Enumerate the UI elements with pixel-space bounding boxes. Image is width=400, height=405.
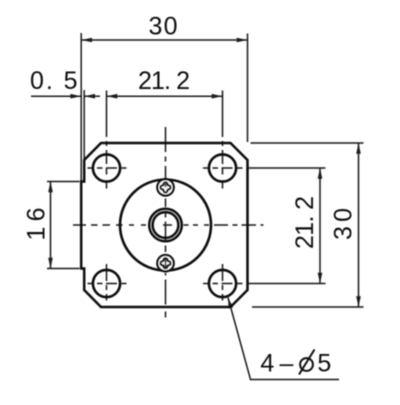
arrowhead 0.5 pointing right bbox=[70, 94, 81, 99]
node: centerline vertical hole bottom-left bbox=[106, 264, 108, 301]
wire: extension line top edge right bbox=[251, 142, 364, 144]
arrowhead 30 top right bbox=[237, 38, 248, 43]
arrowhead 30 top left bbox=[81, 38, 92, 43]
svg-text:4: 4 bbox=[260, 350, 274, 378]
node: centerline horizontal hole bottom-right extended bbox=[203, 283, 326, 285]
svg-text:–: – bbox=[280, 350, 294, 378]
arrowhead 21.2 top right bbox=[212, 94, 223, 99]
screw center tick bottom bbox=[165, 259, 167, 269]
svg-text:0. 5: 0. 5 bbox=[30, 67, 78, 95]
plate outline with chamfered corners and 0.5 tab on left bbox=[81, 143, 247, 307]
hole bottom-right bbox=[209, 270, 236, 297]
wire: dimension line 30 right bbox=[358, 143, 360, 307]
arrowhead 0.5 pointing left bbox=[84, 94, 95, 99]
node: centerline horizontal hole top-right extended bbox=[203, 167, 326, 169]
arrowhead 16 bottom bbox=[48, 258, 53, 269]
hole top-left bbox=[93, 154, 120, 181]
arrowhead 21.2 top left bbox=[107, 94, 118, 99]
wire: leader line 4-phi5 bbox=[228, 298, 339, 380]
svg-text:21. 2: 21. 2 bbox=[291, 196, 319, 249]
arrowhead 16 top bbox=[48, 182, 53, 193]
node: centerline vertical hole top-left bbox=[106, 91, 108, 189]
wire: extension line right (30 top dim) bbox=[247, 34, 249, 143]
screw center tick top bbox=[165, 184, 167, 187]
boss circle (large center circle) bbox=[120, 180, 211, 271]
node: centerline vertical main bbox=[165, 127, 167, 318]
node: centerline horizontal main bbox=[73, 224, 264, 226]
node: centerline horizontal hole top-left bbox=[88, 167, 127, 169]
hole bottom-left bbox=[93, 270, 120, 297]
wire: dimension line 0.5 left part bbox=[31, 95, 81, 97]
svg-text:30: 30 bbox=[149, 13, 178, 41]
screw head bottom bbox=[157, 255, 173, 271]
center hole outer circle bbox=[149, 209, 182, 242]
node: centerline vertical hole top-right bbox=[222, 91, 224, 189]
wire: dimension line 0.5 right tail bbox=[84, 95, 100, 97]
screw recess bottom bbox=[160, 258, 170, 268]
phi symbol of 4-phi5 bbox=[299, 350, 315, 375]
svg-text:21. 2: 21. 2 bbox=[138, 67, 190, 95]
node: centerline horizontal hole bottom-left bbox=[88, 283, 127, 285]
wire: dimension line 21.2 top bbox=[107, 95, 223, 97]
wire: dimension line 16 left bbox=[50, 182, 52, 269]
arrowhead 30 right top bbox=[356, 143, 361, 154]
wire: extension line left (tab edge) bbox=[80, 33, 82, 181]
node: centerline vertical hole bottom-right bbox=[222, 264, 224, 301]
screw head top bbox=[157, 179, 173, 195]
wire: extension line 16 top bbox=[47, 181, 80, 183]
arrowhead leader 4-phi5 bbox=[228, 298, 233, 309]
screw recess top bbox=[160, 182, 170, 192]
svg-text:5: 5 bbox=[317, 350, 331, 378]
arrowhead 21.2 right top bbox=[318, 168, 323, 179]
wire: dimension line 30 top bbox=[81, 39, 247, 41]
wire: extension line 16 bottom bbox=[47, 268, 80, 270]
hole top-right bbox=[209, 154, 236, 181]
center hole inner circle bbox=[153, 212, 179, 238]
arrowhead 21.2 right bottom bbox=[318, 273, 323, 284]
wire: dimension line 21.2 right bbox=[319, 168, 321, 284]
wire: extension line left (body edge, 0.5 dim) bbox=[83, 90, 85, 159]
arrowhead 30 right bottom bbox=[356, 296, 361, 307]
wire: extension line bottom edge right bbox=[252, 306, 364, 308]
